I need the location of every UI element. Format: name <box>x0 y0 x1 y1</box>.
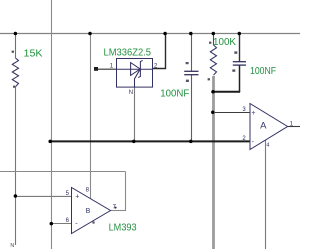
diode U2 LM336Z2.5 box <box>117 59 153 88</box>
wire vertical x=90 to op-amp B pin 8 <box>90 34 92 200</box>
junction dot (50,141) <box>48 140 52 144</box>
pin speck C1 top <box>186 62 189 64</box>
pin speck op-amp B bottom <box>92 221 94 223</box>
junction dot (90,33.5) <box>88 32 92 36</box>
svg-text:100NF: 100NF <box>250 66 276 77</box>
junction dot (133.6,141) <box>132 140 136 144</box>
LM336 cathode bar zener <box>138 60 142 77</box>
junction dot (15,196) <box>14 194 18 198</box>
svg-text:8: 8 <box>86 188 90 194</box>
wire LM336 adjust pin down to node <box>134 87 136 141</box>
wire vertical x=15 above resistor R1 <box>15 34 17 59</box>
wire capacitor C1 top lead x=191 <box>191 34 193 72</box>
wire vertical x=15 below resistor R1 down to op-amp B + input <box>15 87 17 245</box>
capacitor C1 100NF plates <box>184 70 198 72</box>
terminal square LM336 pin1 <box>94 67 98 71</box>
svg-text:100K: 100K <box>213 37 236 48</box>
svg-text:N: N <box>129 90 133 96</box>
LM336 diode triangle <box>131 63 141 76</box>
wire LM336 pin2 to top rail <box>153 34 166 69</box>
junction dot (213,92) <box>211 90 215 94</box>
resistor R1 15K zigzag <box>12 58 18 87</box>
wire top rail y=33.5 <box>0 33 300 35</box>
wire feedback right vertical x=125 <box>125 172 127 212</box>
svg-text:A: A <box>260 120 267 131</box>
svg-text:LM336Z2.5: LM336Z2.5 <box>104 47 152 58</box>
wire capacitor C1 bottom lead x=191 <box>191 75 193 142</box>
wire capacitor C2 bottom lead black <box>239 65 241 92</box>
wire black segment y=92 <box>213 91 241 93</box>
wire op-amp B + input y=196 <box>16 195 72 197</box>
wire op-amp B - input y=223 <box>52 223 72 225</box>
svg-text:4: 4 <box>266 143 269 149</box>
LM336 internal horizontal line <box>117 68 153 70</box>
resistor R2 100K zigzag <box>210 45 216 75</box>
svg-text:N: N <box>10 243 14 249</box>
pin speck C2 bottom <box>232 69 235 71</box>
junction dot (191,33.5) <box>189 32 193 36</box>
wire thick gray rail x=213.5 <box>212 76 215 249</box>
pin speck R1 top <box>12 51 14 53</box>
pin speck R2 top <box>209 42 211 44</box>
wire op-amp A output pin1 <box>288 126 300 128</box>
svg-text:LM393: LM393 <box>109 222 137 233</box>
LM336 adjust inner line <box>135 70 140 87</box>
capacitor C2 100NF plates <box>233 61 246 63</box>
junction dot (165,33.5) <box>163 32 167 36</box>
svg-text:15K: 15K <box>24 49 43 60</box>
junction dot (15,33.5) <box>14 32 18 36</box>
wire LM336 pin1 lead <box>97 68 117 70</box>
pin speck R1 bottom <box>13 86 15 88</box>
svg-text:+: + <box>251 110 255 117</box>
junction dot (239,33.5) <box>238 32 242 36</box>
pin speck C1 bottom <box>186 80 189 82</box>
wire vertical x=51 full height <box>51 0 53 249</box>
pin speck R2 bottom <box>208 78 210 80</box>
pin speck C2 top <box>234 51 237 53</box>
svg-text:100NF: 100NF <box>160 89 189 100</box>
junction dot (213,33.5) <box>212 32 216 36</box>
wire black node bus y=141 <box>50 140 251 142</box>
svg-text:B: B <box>86 208 91 215</box>
wire resistor R2 100K top lead <box>213 34 215 46</box>
op-amp A triangle <box>250 104 288 150</box>
wire op-amp B output stub <box>110 210 126 212</box>
junction dot (50.7,223) <box>50 222 54 226</box>
junction dot op-amp B output <box>115 207 117 209</box>
wire feedback top y=171.5 <box>0 171 125 173</box>
junction dot (190.7,141) <box>189 140 193 144</box>
op-amp B triangle <box>72 188 111 234</box>
svg-text:+: + <box>75 194 79 201</box>
wire capacitor C2 top lead <box>239 34 241 62</box>
wire op-amp A bottom power pin x=265 <box>265 140 267 249</box>
wire op-amp A pin3 input <box>213 112 250 114</box>
junction dot (213,112) <box>211 110 215 114</box>
